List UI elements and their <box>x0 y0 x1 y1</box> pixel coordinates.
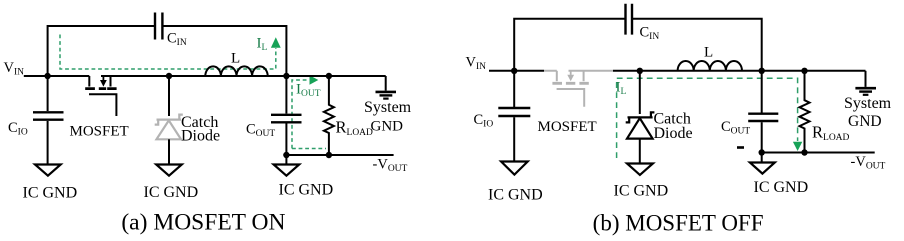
ground IC GND (a, left) <box>35 165 61 176</box>
wire main rail (b) gray over MOSFET <box>544 70 613 72</box>
resistor RLOAD (b) <box>800 71 810 153</box>
capacitor CIO (a) <box>47 76 49 111</box>
svg-text:IC GND: IC GND <box>614 183 669 200</box>
svg-text:VIN: VIN <box>466 55 487 73</box>
svg-text:-VOUT: -VOUT <box>373 157 408 175</box>
svg-text:IC GND: IC GND <box>754 179 809 196</box>
ground System GND (b) <box>865 71 867 87</box>
ground IC GND (b, left) <box>501 162 528 175</box>
node IL arrowhead (b) <box>793 142 802 151</box>
transistor MOSFET (a) <box>85 76 116 116</box>
capacitor CIO (b) <box>513 71 515 107</box>
svg-text:CIN: CIN <box>640 25 660 43</box>
svg-text:CIO: CIO <box>8 120 28 138</box>
svg-text:IC GND: IC GND <box>488 187 543 204</box>
node IOUT arrowhead (a) <box>310 75 319 84</box>
wire top CIN branch (b) <box>514 19 624 71</box>
wire: green dashed current loop a2 (IOUT) <box>292 80 326 149</box>
svg-text:IOUT: IOUT <box>296 82 321 100</box>
svg-text:MOSFET: MOSFET <box>70 124 129 140</box>
svg-text:CIN: CIN <box>167 31 187 49</box>
svg-text:IC GND: IC GND <box>279 182 334 199</box>
svg-text:GND: GND <box>848 113 882 130</box>
wire main rail (a) left part <box>24 75 90 77</box>
wire main rail (b) black left <box>489 70 544 72</box>
node junction dots (b) <box>511 68 808 156</box>
svg-text:COUT: COUT <box>721 119 750 137</box>
svg-text:System: System <box>364 99 412 116</box>
svg-text:(b) MOSFET OFF: (b) MOSFET OFF <box>593 211 764 236</box>
svg-text:L: L <box>704 45 713 61</box>
svg-text:IC GND: IC GND <box>23 185 78 202</box>
svg-text:Diode: Diode <box>181 128 220 145</box>
svg-text:System: System <box>844 95 892 112</box>
svg-text:L: L <box>231 51 240 67</box>
node junction dots (a) <box>44 73 332 158</box>
capacitor COUT (a) <box>285 76 287 114</box>
ground IC GND (a, middle) <box>156 165 182 176</box>
wire bottom rail (b) <box>762 152 875 154</box>
resistor RLOAD (a) <box>324 76 334 155</box>
wire: green dashed current loop a1 (Vin->MOSFET->L->IL) <box>60 35 276 70</box>
svg-text:MOSFET: MOSFET <box>538 119 597 135</box>
wire bottom rail (a) <box>286 154 393 156</box>
diode catch diode D (b, active black schottky) <box>626 112 655 138</box>
inductor L (a) <box>205 66 267 76</box>
inductor L (b) <box>678 61 742 71</box>
svg-text:IL: IL <box>616 80 627 98</box>
transistor MOSFET (b, inactive gray) <box>552 71 588 107</box>
svg-text:-VOUT: -VOUT <box>851 154 886 172</box>
wire main rail (a) right part <box>101 75 386 77</box>
svg-text:RLOAD: RLOAD <box>336 118 374 139</box>
wire diode branch (b) <box>639 71 641 114</box>
svg-text:Diode: Diode <box>654 125 693 142</box>
capacitor COUT (b) <box>761 71 763 113</box>
wire: green dashed current loop b (IL through diode) <box>617 78 798 158</box>
capacitor CIN (a) <box>155 13 162 40</box>
ground IC GND (b, right) <box>761 153 763 163</box>
wire top CIN branch (a) <box>48 26 154 76</box>
capacitor CIN (b) <box>626 4 633 35</box>
svg-text:CIO: CIO <box>474 112 494 130</box>
svg-text:IC GND: IC GND <box>144 184 199 201</box>
svg-text:GND: GND <box>371 118 404 134</box>
ground IC GND (b, middle) <box>627 164 653 175</box>
wire diode branch (a) <box>168 76 170 116</box>
svg-text:RLOAD: RLOAD <box>812 123 850 144</box>
svg-text:(a) MOSFET ON: (a) MOSFET ON <box>121 210 285 236</box>
node IL arrowhead (a) <box>271 37 281 47</box>
svg-text:COUT: COUT <box>246 122 275 140</box>
svg-text:VIN: VIN <box>4 60 25 78</box>
ground IC GND (a, right) <box>285 155 287 164</box>
ground System GND (a) <box>385 76 387 91</box>
diode catch diode D (a, inactive gray schottky) <box>155 115 183 140</box>
node minus polarity mark (b) <box>737 146 744 149</box>
svg-text:IL: IL <box>257 36 268 54</box>
wire main rail (b) black right <box>613 70 866 72</box>
